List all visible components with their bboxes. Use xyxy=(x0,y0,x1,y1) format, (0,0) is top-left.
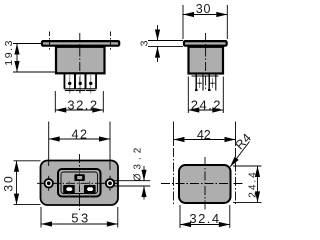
dimension 30 top extension lines xyxy=(182,5,184,39)
dimension 19.3 line + arrows xyxy=(16,44,18,73)
view 4 vertical centerline xyxy=(204,157,206,210)
view 3 earth pin xyxy=(74,174,84,181)
view 1 (top-left side view) flange xyxy=(42,41,119,46)
view 3 N pin tick xyxy=(89,181,91,197)
view 4 (bottom-right rear view) body xyxy=(179,165,231,203)
view 1 terminal 3 xyxy=(85,74,97,94)
dimension 32.2 extension lines xyxy=(54,91,56,113)
svg-text:30: 30 xyxy=(1,174,15,191)
dimension 24.4 extension lines xyxy=(233,165,262,167)
svg-text:Ø3.2: Ø3.2 xyxy=(133,144,144,182)
view 3 recess inner step xyxy=(61,172,98,194)
svg-text:24.2: 24.2 xyxy=(191,98,222,113)
dimension 32.2 line + arrows xyxy=(55,109,103,111)
svg-text:42: 42 xyxy=(72,128,89,142)
svg-text:30: 30 xyxy=(196,2,212,16)
dimension 3 extension lines xyxy=(148,40,183,42)
dimension 42 left extension lines xyxy=(48,122,50,167)
dimension 24.2 extension lines xyxy=(187,77,189,114)
view 3 N pin xyxy=(84,185,96,193)
dimension dia 3.2 extension lines xyxy=(114,180,150,182)
radius R4 leader xyxy=(230,142,250,168)
view 3 mounting hole right xyxy=(103,176,118,191)
view 2 body step line xyxy=(192,75,219,77)
dimension 53 line + arrows xyxy=(41,223,118,225)
dimension 30 left extension lines xyxy=(14,160,41,162)
view 1 flange screw hole centerline left xyxy=(49,32,51,50)
svg-text:32.4: 32.4 xyxy=(189,211,220,226)
dimension 24.2 line + arrows xyxy=(188,109,223,111)
view 2 body xyxy=(189,47,224,74)
svg-text:42: 42 xyxy=(197,128,211,142)
view 3 vertical centerline xyxy=(79,154,81,211)
view 4 hole centerline right xyxy=(235,148,237,205)
svg-text:19.3: 19.3 xyxy=(3,39,15,66)
view 3 (bottom-left front view) flange xyxy=(41,161,119,206)
dimension 42 right line + arrows xyxy=(174,139,236,141)
view 4 hole centerline left xyxy=(173,148,175,205)
view 4 horizontal centerline xyxy=(161,183,243,185)
dimension 24.4 line + arrows xyxy=(257,166,259,202)
svg-text:24.4: 24.4 xyxy=(247,170,258,197)
dimension 42 left line + arrows xyxy=(49,138,110,140)
view 3 horizontal centerline xyxy=(37,182,119,184)
view 3 L pin xyxy=(63,185,75,193)
view 3 earth pin tick xyxy=(79,171,81,186)
dimension 30 top line + arrows xyxy=(183,14,227,16)
view 1 flange screw hole centerline right xyxy=(110,32,112,50)
dimension 19.3 extension lines xyxy=(13,43,41,45)
view 3 mounting hole left xyxy=(41,176,56,191)
dimension 30 left line + arrows xyxy=(16,161,18,205)
view 2 (top-right side view) flange xyxy=(184,41,227,46)
view 1 terminal 1 xyxy=(64,74,76,94)
view 1 terminal 2 xyxy=(74,74,86,94)
view 2 pin 1 xyxy=(195,74,203,91)
view 2 centerline xyxy=(205,33,207,91)
dimension 53 extension lines xyxy=(40,207,42,228)
view 1 body xyxy=(56,47,105,74)
view 3 L pin tick xyxy=(68,181,70,197)
dimension dia 3.2 line + outside arrows xyxy=(143,166,145,181)
dimension 32.4 line + arrows xyxy=(180,224,230,226)
dimension 3 line + outside arrows xyxy=(157,25,159,41)
dimension 32.4 extension lines xyxy=(179,205,181,228)
svg-text:53: 53 xyxy=(71,211,90,226)
view 3 recess xyxy=(58,169,101,197)
view 1 centerline xyxy=(79,33,81,93)
view 2 pin 2 xyxy=(208,74,216,91)
dimension 42 right extension lines xyxy=(173,122,175,147)
svg-text:3: 3 xyxy=(139,40,151,46)
svg-text:32.2: 32.2 xyxy=(67,98,98,113)
